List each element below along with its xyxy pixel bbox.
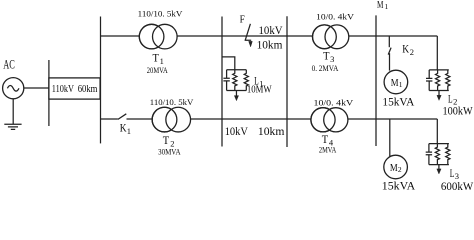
svg-text:1: 1 <box>399 80 403 89</box>
svg-text:T: T <box>163 133 170 147</box>
bus M1 <box>375 15 377 146</box>
svg-text:1: 1 <box>127 126 131 136</box>
svg-text:10MW: 10MW <box>247 85 272 96</box>
load L1 elbow wire <box>222 57 235 70</box>
load L3 <box>426 144 450 174</box>
svg-text:600kW: 600kW <box>441 179 474 193</box>
AC source G <box>3 78 24 99</box>
svg-text:20MVA: 20MVA <box>147 65 168 75</box>
bus B4 <box>286 16 288 147</box>
bottom wire B2 to K1 <box>101 118 118 120</box>
svg-text:2: 2 <box>398 165 402 174</box>
transformer T2 <box>152 107 177 132</box>
svg-text:K: K <box>120 121 127 135</box>
motor M2 branch <box>389 119 391 156</box>
svg-text:M: M <box>377 0 384 11</box>
switch K2 blade <box>388 48 391 55</box>
svg-text:10kV: 10kV <box>259 23 283 37</box>
transformer T3 <box>313 25 337 49</box>
svg-text:10/0. 4kV: 10/0. 4kV <box>314 98 355 108</box>
bus B1 <box>48 60 50 126</box>
load L3 lead <box>436 119 438 144</box>
svg-text:15kVA: 15kVA <box>382 178 416 192</box>
bus B3 <box>221 17 223 147</box>
svg-text:10km: 10km <box>257 38 283 52</box>
bus B2 <box>100 17 102 144</box>
ground <box>4 124 21 129</box>
switch K2 branch <box>388 36 390 47</box>
rail top right <box>376 35 437 37</box>
svg-text:T: T <box>153 51 160 65</box>
svg-text:1: 1 <box>385 2 389 11</box>
svg-text:60km: 60km <box>78 83 98 95</box>
transformer T1 <box>139 24 164 49</box>
svg-text:0. 2MVA: 0. 2MVA <box>312 63 339 73</box>
svg-text:T: T <box>323 49 330 63</box>
wire B2 to B3 (through T1) <box>101 35 223 37</box>
wire B3 to B4 top 10kV line <box>222 35 287 37</box>
load L2 <box>426 70 450 101</box>
svg-text:110/10. 5kV: 110/10. 5kV <box>138 8 183 18</box>
svg-text:2: 2 <box>410 47 414 57</box>
wire AC to ground <box>12 99 14 124</box>
switch K1 blade <box>118 114 126 120</box>
fault bolt <box>245 24 252 41</box>
svg-text:10kV: 10kV <box>225 124 249 138</box>
motor M1 <box>384 70 408 94</box>
wire B4 to bus M1 (through T3) <box>287 35 376 37</box>
load L2 lead <box>436 36 438 70</box>
svg-text:30MVA: 30MVA <box>158 146 181 156</box>
svg-text:10km: 10km <box>258 124 285 138</box>
wire K1 to B3 (through T2) <box>127 118 223 120</box>
motor M2 <box>384 155 408 179</box>
bottom wire B3 to B4 <box>222 118 287 120</box>
bottom wire B4 to bus M1 (through T4) <box>287 118 376 120</box>
transformer T4 <box>311 108 335 132</box>
transmission line box 110kV 60km <box>49 78 100 99</box>
svg-text:2MVA: 2MVA <box>319 145 337 155</box>
svg-text:110/10. 5kV: 110/10. 5kV <box>150 97 194 107</box>
svg-text:F: F <box>240 14 245 25</box>
rail bottom right <box>376 118 437 120</box>
svg-text:110kV: 110kV <box>52 83 74 95</box>
svg-text:AC: AC <box>3 56 15 71</box>
load L1 <box>223 70 248 101</box>
wire AC to bus B1 <box>24 87 49 89</box>
svg-text:K: K <box>402 41 409 55</box>
svg-text:100kW: 100kW <box>443 104 474 118</box>
svg-text:10/0. 4kV: 10/0. 4kV <box>316 11 355 21</box>
svg-text:15kVA: 15kVA <box>382 94 414 108</box>
